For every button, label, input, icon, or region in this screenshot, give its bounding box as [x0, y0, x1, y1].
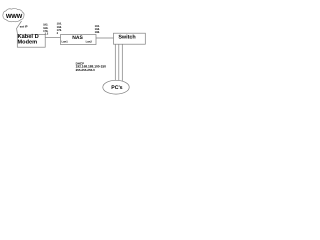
wire switch to PCs 1: [114, 44, 116, 81]
svg-text:255.255.255.0: 255.255.255.0: [76, 68, 96, 72]
wire switch to PCs 3: [121, 44, 123, 81]
DHCP info text: [76, 62, 107, 72]
wire cloud to modem: [17, 21, 22, 35]
svg-text:2: 2: [57, 32, 59, 35]
modem box: [17, 33, 45, 47]
wire modem to NAS: [45, 36, 60, 38]
label NAS Lan2 IP stack: [95, 25, 100, 34]
svg-text:Lan2: Lan2: [86, 41, 93, 44]
svg-text:1.2: 1.2: [45, 32, 49, 35]
label modem WAN IP stack: [43, 24, 49, 36]
svg-text:Switch: Switch: [118, 35, 135, 41]
PCs ellipse: [103, 80, 129, 94]
svg-text:PC's: PC's: [111, 85, 122, 91]
wire switch to PCs 2: [118, 44, 120, 80]
NAS box: [61, 35, 97, 45]
svg-text:NAS: NAS: [72, 35, 83, 41]
wire NAS to switch: [96, 37, 114, 39]
svg-text:WWW: WWW: [6, 13, 23, 20]
label ext IP: [20, 25, 28, 29]
svg-text:Modem: Modem: [18, 38, 38, 45]
label NAS Lan1 IP stack: [57, 23, 62, 35]
svg-text:188.: 188.: [95, 31, 100, 34]
svg-text:ext IP: ext IP: [20, 25, 28, 29]
svg-text:Lan1: Lan1: [62, 41, 69, 44]
cloud WWW: [3, 8, 24, 21]
switch box: [114, 33, 146, 44]
